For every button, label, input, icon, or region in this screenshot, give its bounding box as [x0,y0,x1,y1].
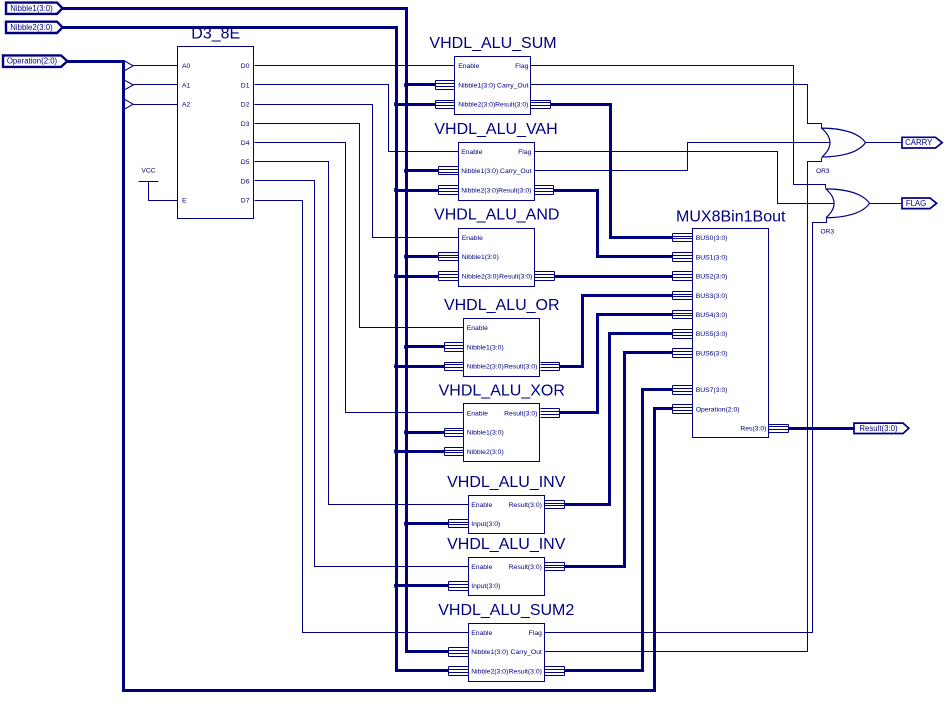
svg-text:CARRY: CARRY [905,138,933,147]
svg-text:Nibble1(3:0): Nibble1(3:0) [458,82,495,89]
svg-text:OR3: OR3 [821,229,835,236]
svg-text:Enable: Enable [467,410,488,417]
svg-text:Nibble1(3:0): Nibble1(3:0) [461,168,498,175]
svg-text:Carry_Out: Carry_Out [497,82,528,89]
svg-text:D6: D6 [241,178,250,185]
svg-text:Nibble2(3:0): Nibble2(3:0) [471,668,508,675]
svg-text:Result(3:0): Result(3:0) [504,364,537,371]
svg-text:FLAG: FLAG [906,199,926,208]
svg-text:Nibble1(3:0): Nibble1(3:0) [462,254,499,261]
svg-text:Input(3:0): Input(3:0) [471,521,500,528]
svg-text:Operation(2:0): Operation(2:0) [696,406,740,413]
svg-text:D4: D4 [241,140,250,147]
svg-text:Nibble2(3:0): Nibble2(3:0) [467,449,504,456]
svg-text:VHDL_ALU_INV: VHDL_ALU_INV [447,474,566,491]
svg-text:D5: D5 [241,159,250,166]
svg-text:Nibble2(3:0): Nibble2(3:0) [462,273,499,280]
svg-text:Enable: Enable [471,564,492,571]
svg-text:Result(3:0): Result(3:0) [859,424,898,433]
svg-text:A0: A0 [182,63,191,70]
svg-text:VHDL_ALU_XOR: VHDL_ALU_XOR [439,382,565,399]
svg-text:Result(3:0): Result(3:0) [509,564,542,571]
svg-text:D3_8E: D3_8E [191,26,240,43]
svg-text:Enable: Enable [458,63,479,70]
svg-text:D3: D3 [241,121,250,128]
svg-text:BUS7(3:0): BUS7(3:0) [696,387,728,394]
svg-text:Res(3:0): Res(3:0) [740,426,766,433]
svg-text:Nibble1(3:0): Nibble1(3:0) [471,649,508,656]
svg-text:Flag: Flag [515,63,528,70]
svg-text:VCC: VCC [141,168,155,175]
svg-text:Input(3:0): Input(3:0) [471,583,500,590]
svg-text:BUS0(3:0): BUS0(3:0) [696,235,728,242]
svg-text:A2: A2 [182,102,191,109]
svg-text:BUS4(3:0): BUS4(3:0) [696,312,728,319]
svg-text:VHDL_ALU_AND: VHDL_ALU_AND [434,207,559,224]
svg-text:D1: D1 [241,82,250,89]
svg-text:Result(3:0): Result(3:0) [495,102,528,109]
svg-text:BUS2(3:0): BUS2(3:0) [696,273,728,280]
svg-text:Nibble1(3:0): Nibble1(3:0) [467,344,504,351]
svg-text:Result(3:0): Result(3:0) [499,273,532,280]
svg-text:VHDL_ALU_OR: VHDL_ALU_OR [444,297,560,314]
svg-text:D2: D2 [241,102,250,109]
svg-text:Flag: Flag [518,149,531,156]
svg-text:Result(3:0): Result(3:0) [509,668,542,675]
svg-text:VHDL_ALU_INV: VHDL_ALU_INV [447,536,566,553]
svg-text:Nibble2(3:0): Nibble2(3:0) [461,187,498,194]
svg-text:Enable: Enable [471,502,492,509]
svg-text:Nibble1(3:0): Nibble1(3:0) [467,430,504,437]
svg-text:BUS1(3:0): BUS1(3:0) [696,254,728,261]
svg-text:BUS3(3:0): BUS3(3:0) [696,293,728,300]
svg-text:Enable: Enable [462,235,483,242]
svg-text:D7: D7 [241,198,250,205]
svg-text:Result(3:0): Result(3:0) [498,187,531,194]
svg-text:VHDL_ALU_VAH: VHDL_ALU_VAH [434,121,557,138]
svg-text:E: E [182,198,187,205]
svg-text:MUX8Bin1Bout: MUX8Bin1Bout [676,208,786,225]
svg-text:Nibble2(3:0): Nibble2(3:0) [10,23,53,32]
svg-text:BUS6(3:0): BUS6(3:0) [696,350,728,357]
svg-text:Nibble1(3:0): Nibble1(3:0) [10,4,53,13]
svg-text:D0: D0 [241,63,250,70]
svg-text:Enable: Enable [467,325,488,332]
svg-text:VHDL_ALU_SUM2: VHDL_ALU_SUM2 [438,602,574,619]
svg-text:Carry_Out: Carry_Out [500,168,531,175]
svg-text:Enable: Enable [471,630,492,637]
svg-text:VHDL_ALU_SUM: VHDL_ALU_SUM [429,35,556,52]
svg-text:Result(3:0): Result(3:0) [509,502,542,509]
svg-text:Flag: Flag [529,630,542,637]
svg-text:A1: A1 [182,82,191,89]
svg-text:Result(3:0): Result(3:0) [504,410,537,417]
svg-text:Nibble2(3:0): Nibble2(3:0) [467,364,504,371]
svg-text:Enable: Enable [461,149,482,156]
svg-text:OR3: OR3 [816,168,830,175]
svg-text:Nibble2(3:0): Nibble2(3:0) [458,102,495,109]
svg-text:Carry_Out: Carry_Out [511,649,542,656]
svg-text:Operation(2:0): Operation(2:0) [7,57,58,66]
svg-text:BUS5(3:0): BUS5(3:0) [696,331,728,338]
